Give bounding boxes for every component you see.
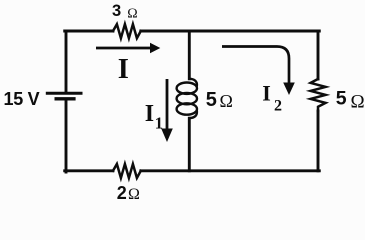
resistor R2 5-ohm vertical zigzag (311, 79, 326, 111)
wire middle branch upper (188, 31, 191, 79)
wire right upper (317, 31, 320, 79)
svg-text:2: 2 (274, 97, 282, 114)
svg-text:Ω: Ω (351, 92, 365, 113)
wire left lower (65, 101, 68, 172)
resistor R1 3-ohm zigzag (113, 24, 141, 38)
svg-text:1: 1 (155, 114, 163, 133)
current arrow I (top, pointing right) (96, 43, 160, 54)
svg-text:Ω: Ω (128, 186, 140, 203)
wire right lower (317, 111, 320, 171)
svg-text:3: 3 (112, 2, 121, 20)
resistor R3 2-ohm zigzag (113, 164, 141, 178)
svg-text:Ω: Ω (127, 6, 137, 21)
svg-text:2: 2 (117, 183, 127, 203)
svg-text:I: I (118, 54, 129, 85)
inductor L1 coil (177, 79, 197, 118)
wire left upper (65, 31, 68, 92)
svg-text:5: 5 (336, 87, 347, 109)
battery B1 long plate (47, 92, 81, 95)
wire middle branch lower (188, 118, 191, 171)
svg-text:5: 5 (206, 89, 217, 111)
current arrow I1 (middle branch, pointing down) (161, 79, 173, 142)
svg-text:I: I (145, 101, 154, 127)
svg-text:I: I (262, 80, 271, 105)
wire top-left segment (65, 30, 113, 33)
wire bottom-right segment (141, 169, 319, 172)
wire bottom-left segment (65, 169, 113, 172)
wire top-right segment (141, 30, 319, 33)
svg-text:15 V: 15 V (4, 89, 40, 109)
svg-text:Ω: Ω (220, 91, 233, 111)
battery B1 short plate (56, 97, 74, 100)
current arrow I2 (curved, pointing down) (222, 47, 295, 96)
